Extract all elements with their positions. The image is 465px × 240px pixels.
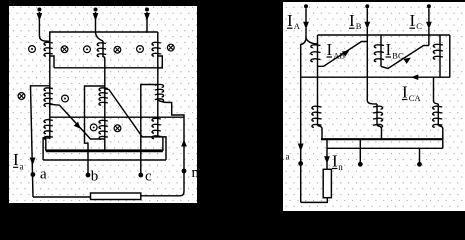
svg-text:n: n — [338, 162, 343, 172]
secondary winding 2a — [99, 88, 108, 105]
1b bottom jogs — [43, 138, 50, 160]
flux symbol cross2 — [114, 46, 121, 53]
right panel background — [283, 2, 465, 211]
flux symbol dot4 — [62, 95, 69, 102]
label IA — [287, 11, 301, 31]
label IB — [349, 11, 362, 31]
wire resistor to n — [141, 191, 184, 196]
flux symbol cross5 — [114, 125, 121, 132]
primary winding P1 — [44, 32, 53, 139]
label IC — [410, 11, 423, 31]
svg-text:I: I — [278, 143, 284, 162]
secondary winding S1 — [312, 106, 322, 127]
svg-text:a: a — [286, 152, 290, 162]
node b — [86, 173, 91, 178]
In drop — [326, 139, 328, 169]
secondary winding 1a — [44, 88, 53, 106]
delta jumper BC-C — [381, 46, 429, 69]
flux symbol dot5 — [90, 124, 97, 131]
secondary thin wire — [327, 147, 443, 149]
phase2 lower line down to bus — [104, 59, 106, 151]
svg-text:I: I — [327, 40, 333, 59]
secondary winding 3b — [152, 118, 161, 138]
svg-text:n: n — [192, 165, 200, 181]
primary winding P3 — [152, 32, 161, 137]
secondary thick bus — [321, 138, 443, 140]
S3 bottom jog — [438, 126, 443, 140]
svg-text:a: a — [40, 167, 47, 183]
label In — [332, 152, 343, 172]
left arrowhead on ICA wire — [411, 74, 418, 80]
delta winding AB and S1 line — [311, 35, 321, 126]
secondary winding 2b — [99, 120, 108, 139]
ICA horizontal wire — [301, 76, 450, 78]
flux symbol dot3 — [137, 46, 144, 53]
CA drop to ICA wire — [439, 60, 441, 77]
svg-text:C: C — [416, 21, 422, 31]
neutral resistor — [91, 193, 141, 200]
svg-text:I: I — [287, 11, 293, 30]
phase B terminal arrow — [93, 8, 103, 42]
3b bottom jogs — [158, 137, 166, 160]
terminal arrow IB — [364, 4, 370, 29]
svg-text:I: I — [386, 40, 392, 59]
label IBC — [386, 40, 404, 61]
svg-text:B: B — [356, 21, 362, 31]
svg-text:a: a — [20, 162, 24, 172]
svg-text:BC: BC — [392, 51, 404, 61]
svg-text:CA: CA — [409, 93, 422, 103]
flux symbol dot2 — [84, 46, 91, 53]
secondary winding S2 — [373, 104, 383, 127]
delta jumper AB-B — [318, 42, 368, 67]
secondary winding S3 — [433, 104, 443, 127]
svg-text:I: I — [410, 11, 416, 30]
left panel background — [9, 6, 197, 203]
middle horizontal wire — [50, 116, 184, 118]
svg-text:I: I — [332, 152, 338, 171]
arrowhead on jumper 1 — [74, 122, 81, 129]
up arrow on n wire — [181, 140, 187, 147]
P1 bottom jog — [50, 56, 54, 68]
neutral resistor right — [323, 169, 331, 197]
svg-text:c: c — [145, 169, 152, 185]
node a — [31, 172, 36, 177]
wire A split elbows — [301, 28, 306, 202]
node c — [138, 173, 143, 178]
label ICA — [402, 83, 421, 103]
svg-text:b: b — [91, 169, 99, 185]
S1 bottom jog — [318, 126, 323, 140]
P3 bottom jog loop — [158, 56, 163, 68]
svg-text:I: I — [13, 150, 19, 169]
S2 feed jog — [367, 101, 377, 104]
top connecting wire — [50, 32, 158, 43]
top wire right panel — [318, 34, 450, 36]
C line — [428, 28, 430, 46]
box bottom wire — [54, 67, 158, 69]
label Ia — [278, 143, 290, 162]
thick bus H1 — [46, 149, 163, 152]
wire to terminal a — [31, 86, 50, 197]
bottom U wire — [301, 198, 328, 203]
wire to terminal c — [141, 85, 158, 176]
zigzag jumper 1 to 2b — [50, 104, 105, 139]
svg-text:A: A — [294, 21, 301, 31]
primary winding P2 — [97, 41, 106, 57]
svg-text:I: I — [402, 83, 408, 102]
current arrow on a line — [298, 144, 304, 152]
S2 bottom jog — [377, 126, 382, 140]
secondary winding 3a (right side ticks) — [155, 84, 164, 101]
c terminal drop — [419, 148, 421, 164]
S3 feed drop — [434, 77, 439, 104]
label IAB — [327, 40, 346, 61]
phase A terminal arrow — [37, 8, 50, 42]
secondary winding 1b — [44, 120, 53, 140]
delta winding BC — [374, 35, 384, 67]
phase C terminal arrow — [144, 8, 150, 33]
node n — [182, 169, 187, 174]
flux symbol cross3 — [167, 44, 174, 51]
flux symbol dot1 — [29, 46, 36, 53]
node a right panel — [298, 161, 303, 166]
terminal arrow IA — [303, 4, 309, 29]
delta winding CA — [433, 35, 443, 60]
current arrow Ia on a-line — [30, 158, 36, 166]
link at right end — [442, 139, 444, 148]
zigzag jumper 2 to 3b — [105, 89, 158, 137]
flux symbol cross1 — [61, 46, 68, 53]
thin bus H2 — [43, 159, 166, 161]
label Ia — [13, 150, 24, 172]
flux symbol cross4 — [18, 93, 25, 100]
svg-text:I: I — [349, 11, 355, 30]
b terminal drop — [359, 139, 361, 164]
neutral wire from 3a to n — [158, 100, 184, 191]
wire to terminal b — [85, 86, 105, 175]
P2 bottom jog — [103, 57, 105, 59]
wire a to resistor — [33, 196, 91, 198]
right edge wire — [449, 35, 451, 77]
svg-text:AB: AB — [333, 51, 345, 61]
terminal arrow IC — [426, 4, 432, 29]
B line — [366, 28, 368, 102]
